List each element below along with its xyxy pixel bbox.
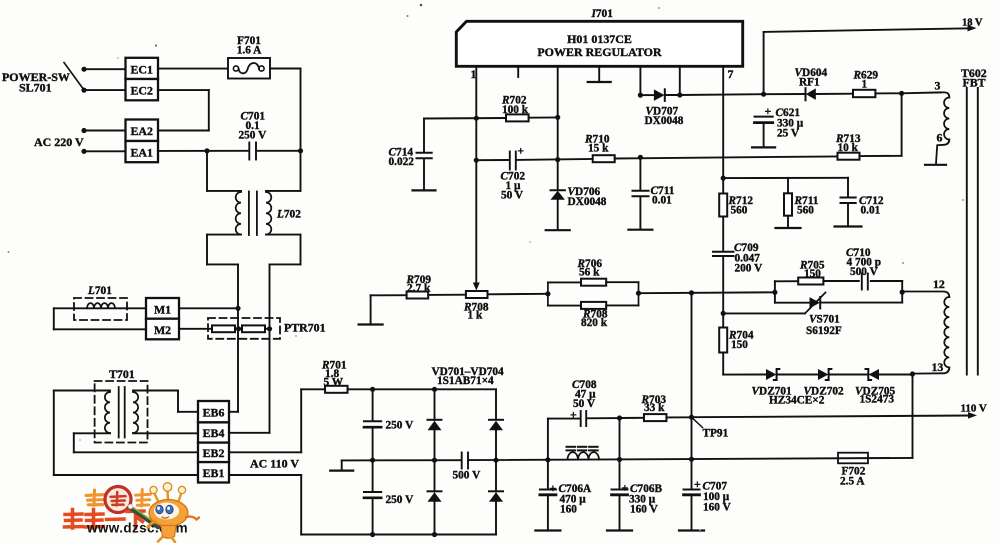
svg-text:500 V: 500 V [453,470,482,482]
svg-text:0.022: 0.022 [389,156,415,168]
svg-text:820 k: 820 k [581,317,608,329]
svg-text:500 V: 500 V [850,266,879,278]
svg-text:M2: M2 [154,323,171,337]
svg-text:56 k: 56 k [579,267,600,279]
svg-text:RF1: RF1 [799,76,820,88]
svg-text:S6192F: S6192F [806,325,842,337]
svg-text:AC 110 V: AC 110 V [250,457,299,471]
svg-text:110 V: 110 V [961,403,987,415]
svg-text:EB2: EB2 [203,446,225,460]
svg-text:160 V: 160 V [630,503,659,515]
svg-text:13: 13 [932,360,944,374]
svg-text:+: + [622,481,629,495]
svg-text:VS701: VS701 [809,314,840,326]
svg-text:200 V: 200 V [735,263,764,275]
svg-text:12: 12 [933,277,945,291]
svg-text:1 k: 1 k [468,310,483,322]
svg-text:1: 1 [862,79,868,91]
svg-text:50 V: 50 V [501,190,524,202]
svg-text:HZ34CE×2: HZ34CE×2 [769,394,825,406]
svg-text:SL701: SL701 [19,81,52,95]
svg-text:1.6 A: 1.6 A [237,45,262,57]
svg-text:+: + [694,477,701,491]
svg-text:25 V: 25 V [777,128,800,140]
svg-text:250 V: 250 V [386,420,415,432]
svg-text:0.01: 0.01 [652,195,672,207]
svg-text:L702: L702 [276,209,301,221]
svg-text:EC1: EC1 [130,63,152,77]
svg-text:I701: I701 [591,8,614,20]
svg-text:150: 150 [731,339,748,351]
svg-text:EA2: EA2 [130,124,152,138]
svg-text:TP91: TP91 [703,428,729,440]
svg-text:H01 0137CE: H01 0137CE [567,32,632,46]
svg-text:L701: L701 [87,285,112,297]
svg-text:1S1AB71×4: 1S1AB71×4 [437,375,494,387]
svg-text:2.5 A: 2.5 A [840,476,865,488]
svg-text:160: 160 [560,503,577,515]
svg-text:PTR701: PTR701 [284,321,326,335]
svg-text:150: 150 [804,268,821,280]
svg-text:T701: T701 [109,367,135,381]
svg-text:+: + [518,146,524,158]
svg-text:1S2473: 1S2473 [860,394,895,406]
svg-text:250 V: 250 V [239,130,268,142]
svg-text:EB6: EB6 [203,405,225,419]
svg-text:160 V: 160 V [703,501,732,513]
svg-text:POWER REGULATOR: POWER REGULATOR [537,45,662,59]
svg-text:EC2: EC2 [130,84,152,98]
svg-text:AC 220 V: AC 220 V [34,135,84,149]
svg-text:6: 6 [937,131,943,145]
svg-text:DX0048: DX0048 [568,196,607,208]
svg-text:DX0048: DX0048 [645,115,684,127]
svg-text:3: 3 [935,79,941,93]
svg-text:EB1: EB1 [203,466,225,480]
svg-text:M1: M1 [154,303,171,317]
svg-text:EA1: EA1 [130,145,152,159]
svg-text:+: + [570,408,577,422]
svg-text:560: 560 [731,204,748,216]
svg-text:0.01: 0.01 [861,204,881,216]
svg-text:18 V: 18 V [962,18,983,29]
svg-text:+: + [550,481,557,495]
svg-text:250 V: 250 V [386,494,415,506]
svg-text:33 k: 33 k [644,402,665,414]
svg-text:15 k: 15 k [588,143,609,155]
svg-text:560: 560 [797,204,814,216]
svg-text:7: 7 [728,67,734,81]
svg-text:EB4: EB4 [203,426,225,440]
